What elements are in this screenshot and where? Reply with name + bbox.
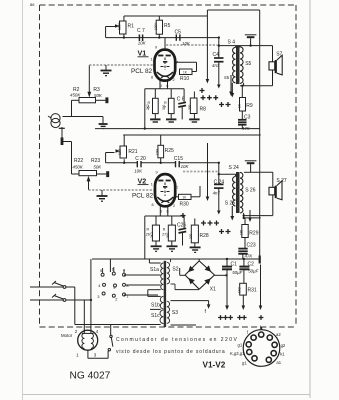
svg-text:K,g3,g1: K,g3,g1	[230, 351, 245, 356]
svg-text:NG 4027: NG 4027	[70, 371, 111, 382]
svg-text:9: 9	[155, 46, 157, 50]
svg-text:S 24: S 24	[229, 165, 240, 171]
svg-text:R31: R31	[248, 288, 257, 294]
svg-text:2: 2	[173, 204, 175, 208]
svg-text:S1b: S1b	[151, 303, 160, 309]
svg-text:V1-V2: V1-V2	[203, 361, 226, 370]
svg-text:26: 26	[146, 233, 150, 237]
svg-text:1K2: 1K2	[238, 287, 242, 293]
svg-text:47K: 47K	[242, 126, 251, 131]
svg-text:1: 1	[151, 58, 153, 62]
svg-text:C23: C23	[247, 242, 256, 248]
svg-text:R25: R25	[165, 148, 174, 154]
svg-text:C26: C26	[177, 223, 186, 229]
svg-text:27: 27	[162, 233, 166, 237]
svg-text:100K: 100K	[117, 22, 121, 30]
svg-text:R: R	[163, 228, 166, 232]
svg-text:7: 7	[176, 61, 178, 65]
svg-text:4n7: 4n7	[213, 190, 221, 195]
svg-text:R23: R23	[91, 158, 100, 164]
svg-text:6: 6	[166, 84, 168, 88]
svg-text:visto desde los puntos de sold: visto desde los puntos de soldadura	[116, 349, 226, 355]
svg-text:10K: 10K	[138, 41, 147, 46]
svg-text:10K: 10K	[181, 164, 190, 169]
svg-text:S1c: S1c	[151, 313, 160, 319]
svg-text:C4: C4	[213, 52, 220, 58]
svg-text:S7: S7	[276, 52, 282, 58]
svg-text:200: 200	[188, 104, 192, 110]
svg-text:8: 8	[152, 203, 154, 207]
svg-text:50K: 50K	[93, 165, 102, 170]
svg-text:C 20: C 20	[135, 156, 146, 162]
svg-text:6: 6	[148, 106, 150, 110]
svg-text:7: 7	[164, 106, 166, 110]
svg-text:S 27: S 27	[276, 178, 287, 184]
svg-text:a1: a1	[276, 360, 281, 365]
svg-text:6: 6	[167, 210, 169, 214]
svg-text:C5: C5	[175, 29, 182, 35]
svg-text:S 26: S 26	[245, 188, 256, 194]
svg-text:10K: 10K	[182, 41, 191, 46]
svg-text:R: R	[148, 101, 151, 105]
svg-text:50µF: 50µF	[232, 270, 242, 275]
svg-text:390: 390	[166, 232, 170, 238]
svg-text:R29: R29	[249, 231, 258, 237]
svg-text:S5: S5	[245, 61, 251, 67]
svg-text:50µF: 50µF	[248, 269, 258, 274]
svg-text:R30: R30	[180, 202, 189, 208]
svg-text:5: 5	[160, 210, 162, 214]
svg-text:4n7: 4n7	[212, 63, 220, 68]
svg-text:10M: 10M	[118, 148, 122, 155]
svg-text:g2: g2	[281, 343, 286, 348]
svg-text:Motor: Motor	[61, 333, 73, 338]
svg-text:R5: R5	[164, 23, 171, 29]
svg-text:7: 7	[176, 186, 178, 190]
svg-text:47K: 47K	[245, 253, 254, 258]
svg-text:1: 1	[151, 183, 153, 187]
svg-text:g1: g1	[238, 343, 243, 348]
svg-text:C 7: C 7	[137, 28, 145, 34]
svg-text:Conmutador de tensiones en 220: Conmutador de tensiones en 220V	[116, 337, 238, 343]
svg-text:R1: R1	[128, 24, 135, 30]
svg-text:R: R	[164, 101, 167, 105]
svg-text:2K2: 2K2	[150, 232, 154, 238]
svg-text:200: 200	[189, 233, 193, 239]
svg-text:S1a: S1a	[150, 267, 159, 273]
svg-text:180: 180	[240, 229, 244, 235]
svg-text:C 24: C 24	[214, 180, 225, 186]
svg-text:S 25: S 25	[225, 201, 236, 207]
svg-text:S5: S5	[224, 75, 230, 80]
svg-text:S2: S2	[172, 267, 178, 273]
svg-text:R8: R8	[200, 106, 207, 112]
svg-text:R22: R22	[74, 158, 83, 164]
svg-text:k1: k1	[280, 352, 285, 357]
svg-text:C 6: C 6	[177, 97, 185, 103]
svg-text:86: 86	[30, 2, 35, 7]
svg-text:50K: 50K	[94, 93, 103, 98]
svg-text:R21: R21	[128, 149, 137, 155]
svg-text:PCL 82: PCL 82	[131, 68, 153, 75]
svg-text:100K: 100K	[154, 22, 158, 30]
svg-text:R: R	[147, 228, 150, 232]
svg-text:8: 8	[151, 76, 153, 80]
svg-text:10K: 10K	[134, 168, 143, 173]
svg-text:V2: V2	[138, 176, 147, 185]
svg-text:450K: 450K	[73, 165, 84, 170]
svg-text:C15: C15	[174, 156, 183, 162]
svg-text:5: 5	[160, 84, 162, 88]
svg-text:S3: S3	[172, 310, 178, 316]
svg-text:g1: g1	[242, 361, 247, 366]
svg-text:9: 9	[156, 171, 158, 175]
svg-text:R28: R28	[200, 233, 209, 239]
svg-text:450K: 450K	[70, 92, 81, 97]
svg-text:a2: a2	[276, 332, 281, 337]
svg-text:R9: R9	[246, 103, 253, 109]
svg-text:C2: C2	[248, 262, 255, 268]
svg-text:C3: C3	[244, 115, 251, 121]
svg-text:S 4: S 4	[228, 39, 236, 45]
svg-text:PCL 82: PCL 82	[132, 193, 154, 200]
svg-text:C1: C1	[231, 262, 238, 268]
svg-text:2: 2	[173, 78, 175, 82]
svg-text:10M: 10M	[156, 148, 160, 155]
svg-text:R10: R10	[180, 76, 189, 82]
svg-text:V1: V1	[138, 49, 147, 58]
svg-text:X1: X1	[210, 286, 216, 292]
